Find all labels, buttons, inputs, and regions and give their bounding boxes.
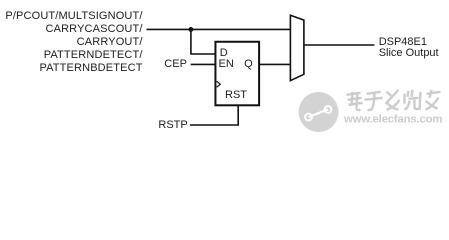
wire mux output to DSP48E1 slice output [304, 44, 375, 46]
junction dot [189, 27, 194, 32]
wire RSTP to RST pin [190, 106, 238, 125]
multiplexer [290, 15, 304, 80]
svg-text:www.elecfans.com: www.elecfans.com [343, 113, 443, 125]
wire junction down to D input [191, 29, 216, 54]
output label DSP48E1 Slice Output [379, 37, 439, 59]
flip-flop register box [215, 42, 259, 106]
pin label RSTP [158, 119, 187, 132]
flip-flop label RST [225, 89, 247, 102]
wire CEP to EN pin [191, 63, 216, 65]
wire net P/PCOUT list to mux top input [147, 28, 292, 30]
pin label CEP [164, 58, 187, 71]
watermark logo circle [299, 85, 339, 132]
net label list P/PCOUT/MULTSIGNOUT/ CARRYCASCOUT/ CARRYOUT/ PATTERNDETECT/ PATTERNBDETECT [0, 10, 143, 75]
flip-flop label D [220, 47, 228, 60]
flip-flop label EN [219, 58, 234, 71]
flip-flop clock chevron [217, 81, 221, 87]
wire Q output to mux bottom input [260, 63, 291, 65]
watermark text 电子发烧友 (approximated strokes) [347, 90, 441, 110]
flip-flop label Q [244, 58, 253, 71]
